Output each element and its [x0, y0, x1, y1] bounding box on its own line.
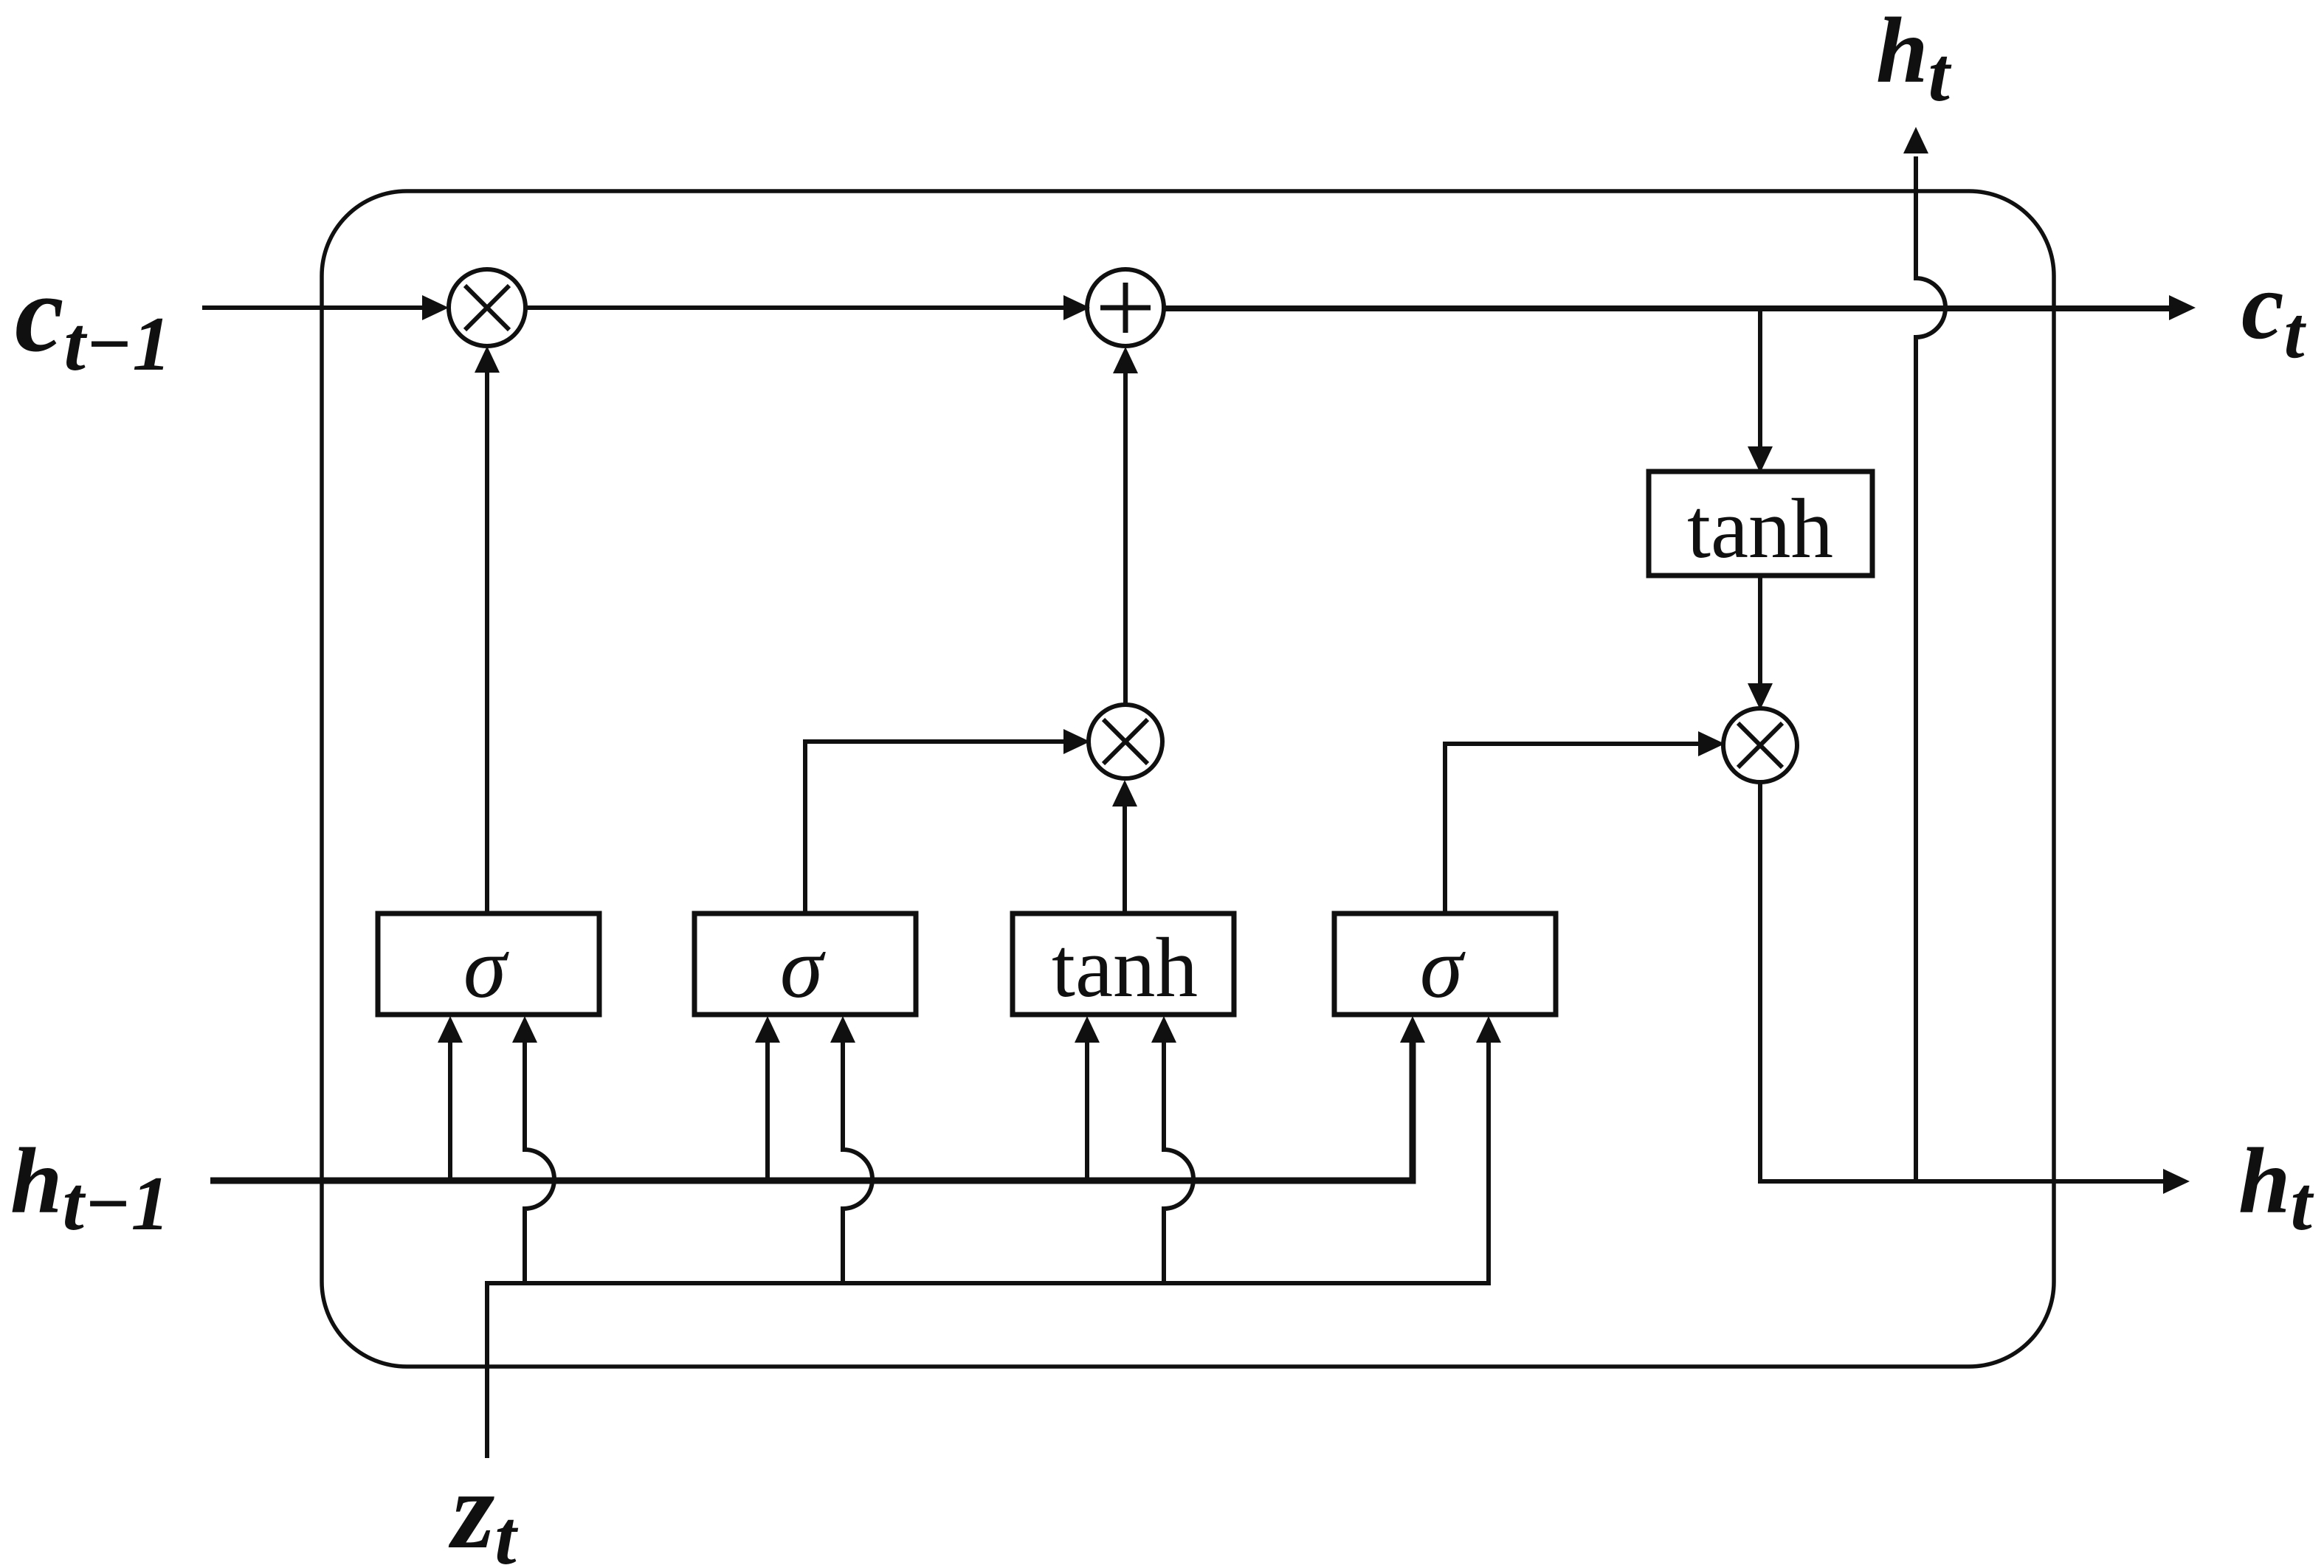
svg-text:ct: ct	[2241, 253, 2307, 373]
svg-text:tanh: tanh	[1687, 482, 1833, 576]
svg-text:tanh: tanh	[1052, 921, 1198, 1015]
svg-text:ht−1: ht−1	[10, 1130, 170, 1246]
svg-text:ct−1: ct−1	[15, 252, 171, 387]
svg-text:σ: σ	[780, 919, 826, 1016]
svg-text:ht: ht	[1876, 0, 1952, 117]
svg-text:ht: ht	[2238, 1130, 2314, 1246]
svg-text:zt: zt	[448, 1449, 518, 1568]
svg-text:σ: σ	[1420, 919, 1466, 1016]
svg-text:σ: σ	[463, 919, 509, 1016]
